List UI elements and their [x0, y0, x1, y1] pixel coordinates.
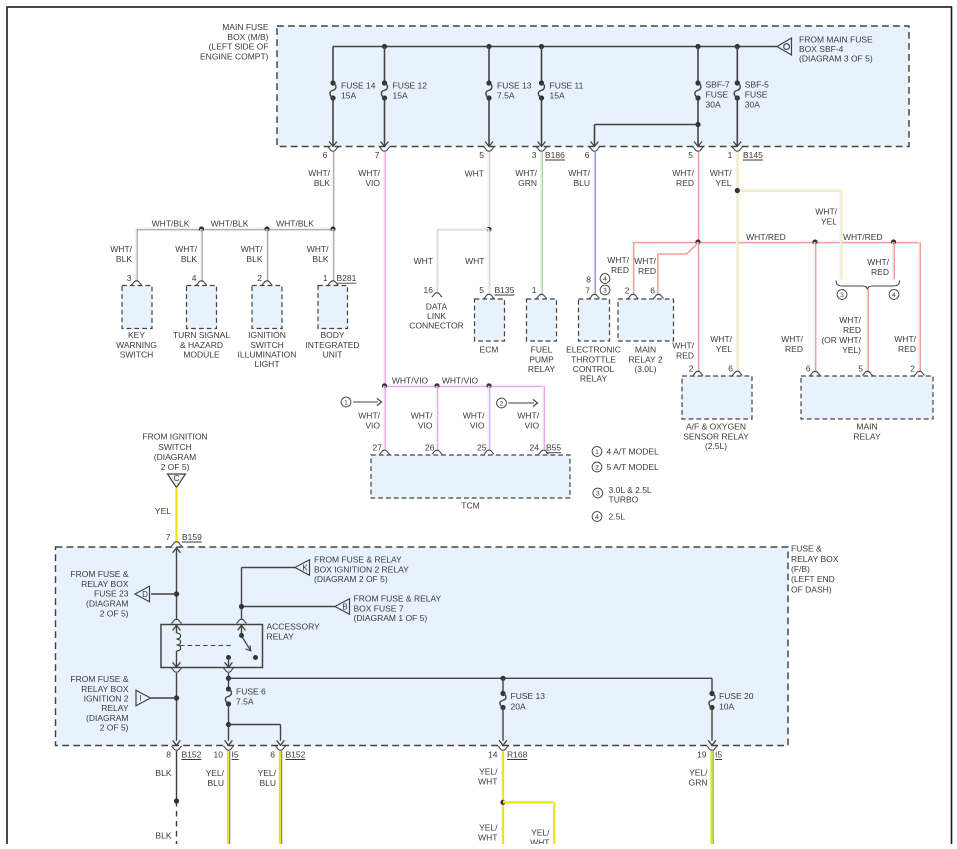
svg-text:SBF-5: SBF-5: [745, 80, 769, 90]
svg-text:B: B: [342, 602, 347, 611]
svg-text:5: 5: [858, 364, 863, 374]
svg-text:WHT/: WHT/: [307, 244, 329, 254]
node BLK: [174, 798, 179, 803]
box FUEL PUMP RELAY: [527, 299, 557, 341]
svg-text:I: I: [139, 694, 141, 703]
svg-text:WHT/: WHT/: [411, 411, 433, 421]
svg-text:19: 19: [697, 750, 707, 760]
svg-text:VIO: VIO: [365, 421, 380, 431]
svg-text:27: 27: [373, 443, 383, 453]
svg-text:(LEFT SIDE OF: (LEFT SIDE OF: [209, 42, 269, 52]
wire WHT/VIO horizontal: [385, 384, 544, 386]
svg-text:MAIN: MAIN: [856, 422, 877, 432]
svg-text:FUSE 12: FUSE 12: [393, 80, 428, 90]
svg-text:4 A/T MODEL: 4 A/T MODEL: [607, 447, 660, 457]
main fuse box M/B (dashed box): [277, 26, 909, 147]
box A/F & OXYGEN SENSOR RELAY (2.5L): [682, 376, 752, 419]
svg-text:WHT: WHT: [478, 833, 497, 843]
pin 7 (WHT/VIO): [379, 147, 389, 151]
svg-text:(DIAGRAM 1 OF 5): (DIAGRAM 1 OF 5): [354, 613, 428, 623]
svg-text:B152: B152: [286, 749, 306, 759]
svg-text:FUSE 23: FUSE 23: [94, 589, 129, 599]
node sbf5 bus: [735, 44, 740, 49]
wire sbf7 tap to pin6: [595, 124, 699, 126]
svg-text:B145: B145: [743, 150, 763, 160]
svg-text:(DIAGRAM 2 OF 5): (DIAGRAM 2 OF 5): [314, 574, 388, 584]
svg-text:ENGINE COMPT): ENGINE COMPT): [200, 52, 269, 62]
svg-text:BOX IGNITION 2 RELAY: BOX IGNITION 2 RELAY: [314, 564, 409, 574]
svg-text:(DIAGRAM: (DIAGRAM: [86, 713, 129, 723]
svg-text:MODULE: MODULE: [183, 350, 220, 360]
svg-text:2 OF 5): 2 OF 5): [100, 608, 129, 618]
wire YEL: [175, 488, 177, 542]
svg-text:FUSE &: FUSE &: [791, 544, 822, 554]
wire feed to fuse 13 / fuse 20: [229, 677, 713, 679]
svg-text:WHT/RED: WHT/RED: [746, 232, 786, 242]
svg-text:6: 6: [728, 364, 733, 374]
wire coil ground path: [176, 673, 178, 741]
pin 5 (WHT): [484, 147, 494, 151]
pin 1 B145: [732, 147, 742, 151]
node WHT/BLK j2: [264, 226, 269, 231]
wire YEL/BLU pin 10: [227, 751, 229, 845]
svg-text:2: 2: [910, 364, 915, 374]
svg-text:TURBO: TURBO: [609, 495, 639, 505]
svg-text:K: K: [302, 563, 308, 572]
node fuse12 bus: [382, 44, 387, 49]
svg-text:BLK: BLK: [155, 831, 171, 841]
wire WHT/RED to main relay pin 6: [813, 242, 815, 372]
svg-text:BLK: BLK: [312, 254, 328, 264]
svg-text:(2.5L): (2.5L): [705, 441, 727, 451]
svg-text:YEL/: YEL/: [206, 768, 225, 778]
svg-text:15A: 15A: [341, 90, 356, 100]
svg-text:YEL: YEL: [155, 506, 171, 516]
svg-text:BLK: BLK: [181, 254, 197, 264]
legend (4) 2.5L: [592, 512, 602, 522]
svg-text:RED: RED: [898, 344, 916, 354]
fuse FUSE 13 20A: [500, 691, 505, 696]
node WHT/RED j3: [891, 239, 896, 244]
svg-text:10: 10: [214, 750, 224, 760]
svg-text:YEL/: YEL/: [258, 768, 277, 778]
svg-text:YEL/: YEL/: [531, 828, 550, 838]
svg-text:5: 5: [479, 285, 484, 295]
svg-text:WHT/: WHT/: [634, 256, 656, 266]
svg-text:15A: 15A: [550, 90, 565, 100]
relay switch out cup: [223, 668, 233, 672]
svg-text:RED: RED: [611, 265, 629, 275]
svg-text:BLK: BLK: [314, 178, 330, 188]
svg-text:SBF-7: SBF-7: [706, 80, 730, 90]
svg-text:FUSE 20: FUSE 20: [719, 691, 754, 701]
wire WHT/YEL branch right: [737, 189, 841, 191]
pin 14 R168: [498, 746, 508, 750]
wire YEL/WHT branch: [503, 800, 554, 802]
svg-text:(DIAGRAM: (DIAGRAM: [154, 452, 197, 462]
fuse FUSE 20 10A: [709, 691, 714, 696]
svg-text:FROM FUSE & RELAY: FROM FUSE & RELAY: [354, 594, 442, 604]
svg-text:WHT: WHT: [465, 168, 484, 178]
svg-text:3: 3: [603, 287, 607, 294]
svg-text:4: 4: [595, 514, 599, 521]
svg-text:FUSE 14: FUSE 14: [341, 80, 376, 90]
svg-text:VIO: VIO: [365, 178, 380, 188]
wire WHT/VIO drop to TCM: [435, 386, 437, 451]
svg-text:WHT/RED: WHT/RED: [843, 232, 883, 242]
box IGNITION SWITCH ILLUMINATION LIGHT: [252, 286, 282, 329]
accessory relay box: [161, 625, 263, 668]
svg-text:8: 8: [586, 275, 591, 285]
wire WHT/BLK horizontal bus: [137, 227, 334, 229]
svg-text:RELAY: RELAY: [580, 374, 608, 384]
svg-text:WHT/: WHT/: [607, 255, 629, 265]
svg-text:2: 2: [595, 464, 599, 471]
svg-text:ELECTRONIC: ELECTRONIC: [566, 345, 621, 355]
pin 6 (WHT/BLK): [328, 147, 338, 151]
wire WHT/RED from pin 5 down: [696, 152, 698, 242]
svg-text:6: 6: [323, 150, 328, 160]
svg-text:5 A/T MODEL: 5 A/T MODEL: [607, 462, 660, 472]
wire BLK dashed continuation: [176, 801, 178, 845]
box TURN SIGNAL & HAZARD MODULE: [187, 286, 217, 329]
svg-text:8: 8: [166, 750, 171, 760]
box KEY WARNING SWITCH: [122, 286, 152, 329]
svg-text:SWITCH: SWITCH: [250, 340, 284, 350]
svg-text:YEL/: YEL/: [689, 768, 708, 778]
svg-text:2 OF 5): 2 OF 5): [161, 462, 190, 472]
svg-text:TURN SIGNAL: TURN SIGNAL: [173, 330, 230, 340]
svg-text:& HAZARD: & HAZARD: [180, 340, 223, 350]
svg-text:4: 4: [892, 292, 896, 299]
box BODY INTEGRATED UNIT: [318, 286, 348, 329]
svg-text:FUSE 11: FUSE 11: [550, 80, 584, 90]
svg-text:ILLUMINATION: ILLUMINATION: [238, 350, 297, 360]
wire WHT/BLK drop: [331, 229, 333, 282]
svg-text:BLU: BLU: [573, 178, 590, 188]
svg-text:GRN: GRN: [518, 178, 537, 188]
relay switch: [239, 633, 244, 638]
wire WHT/VIO drop to TCM: [487, 386, 489, 451]
svg-text:BLU: BLU: [259, 778, 276, 788]
svg-text:INTEGRATED: INTEGRATED: [305, 340, 359, 350]
brace merge (3)(4): [836, 281, 900, 290]
svg-text:(LEFT END: (LEFT END: [791, 574, 835, 584]
svg-text:3: 3: [532, 150, 537, 160]
variant arrow (2): [497, 398, 507, 408]
svg-text:C: C: [174, 474, 180, 483]
svg-text:WHT/: WHT/: [358, 411, 380, 421]
box ECM: [475, 299, 505, 341]
svg-text:BLK: BLK: [116, 254, 132, 264]
svg-text:WHT/: WHT/: [110, 244, 132, 254]
wire WHT/RED (OR WHT/YEL) from brace to main relay pin 5: [866, 289, 868, 372]
svg-text:I5: I5: [232, 749, 239, 759]
svg-text:IGNITION 2: IGNITION 2: [84, 694, 129, 704]
svg-text:WHT/BLK: WHT/BLK: [276, 219, 314, 229]
svg-text:LIGHT: LIGHT: [254, 359, 279, 369]
node fuse13 bus: [486, 44, 491, 49]
svg-text:FROM FUSE & RELAY: FROM FUSE & RELAY: [314, 555, 402, 565]
wire below fuse 6: [228, 704, 230, 741]
legend (1) 4 A/T MODEL: [592, 447, 602, 457]
svg-text:2: 2: [500, 400, 504, 407]
svg-text:I5: I5: [715, 749, 722, 759]
svg-text:RED: RED: [676, 178, 694, 188]
svg-text:RELAY: RELAY: [528, 364, 556, 374]
node fuse11 bus: [539, 44, 544, 49]
svg-text:WHT/: WHT/: [517, 411, 539, 421]
svg-text:YEL: YEL: [716, 344, 732, 354]
svg-text:1: 1: [344, 399, 348, 406]
svg-text:FUSE 6: FUSE 6: [236, 687, 266, 697]
svg-text:FUEL: FUEL: [531, 345, 553, 355]
svg-text:30A: 30A: [745, 100, 760, 110]
node D junction: [174, 591, 179, 596]
svg-text:25: 25: [477, 443, 487, 453]
node WHT/RED j2: [812, 239, 817, 244]
svg-text:16: 16: [424, 285, 434, 295]
node WHT split: [486, 227, 491, 232]
svg-text:YEL/: YEL/: [479, 823, 498, 833]
fuse FUSE 6 7.5A: [226, 686, 231, 691]
wire WHT/RED horizontal: [633, 240, 920, 242]
pin 19 I5: [707, 746, 717, 750]
box ELECTRONIC THROTTLE CONTROL RELAY: [579, 299, 610, 341]
svg-text:CONNECTOR: CONNECTOR: [409, 320, 464, 330]
relay coil out cup: [171, 668, 181, 672]
wire WHT/BLK drop: [200, 229, 202, 282]
svg-text:WHT: WHT: [465, 256, 484, 266]
svg-text:A/F & OXYGEN: A/F & OXYGEN: [686, 422, 746, 432]
legend (3) 3.0L & 2.5L TURBO: [593, 488, 603, 498]
wire WHT/RED diagonal to main relay 2 pin 6: [659, 243, 698, 295]
wire WHT/BLK drop: [135, 229, 137, 282]
svg-text:WHT/: WHT/: [672, 341, 694, 351]
svg-text:6: 6: [806, 364, 811, 374]
svg-text:7: 7: [585, 286, 590, 296]
svg-text:R168: R168: [507, 749, 528, 759]
svg-text:WHT/: WHT/: [672, 168, 694, 178]
svg-text:WHT: WHT: [530, 838, 549, 844]
relay switch output: [228, 658, 230, 668]
legend (2) 5 A/T MODEL: [592, 462, 602, 472]
svg-text:3.0L & 2.5L: 3.0L & 2.5L: [609, 485, 652, 495]
node WHT/BLK j1: [199, 226, 204, 231]
svg-text:7.5A: 7.5A: [236, 697, 254, 707]
svg-text:BLK: BLK: [155, 768, 171, 778]
svg-text:RED: RED: [843, 325, 861, 335]
svg-text:WHT/: WHT/: [241, 244, 263, 254]
wire WHT/GRN from pin 3: [540, 152, 542, 295]
svg-text:IGNITION: IGNITION: [248, 330, 286, 340]
pin 6 B152: [275, 746, 285, 750]
wire WHT to data link connector: [437, 228, 489, 230]
svg-text:10A: 10A: [719, 702, 734, 712]
svg-text:RELAY BOX: RELAY BOX: [81, 579, 129, 589]
node WHT/VIO j2: [434, 383, 439, 388]
svg-text:SWITCH: SWITCH: [158, 442, 192, 452]
svg-text:7.5A: 7.5A: [497, 90, 515, 100]
svg-text:15A: 15A: [393, 90, 408, 100]
svg-text:GRN: GRN: [689, 778, 708, 788]
wire YEL/WHT pin 14: [501, 751, 503, 845]
svg-text:VIO: VIO: [418, 421, 433, 431]
svg-text:CONTROL: CONTROL: [573, 364, 615, 374]
connector K from ignition 2 relay: [295, 560, 310, 576]
svg-text:THROTTLE: THROTTLE: [571, 354, 616, 364]
connector I from ignition 2 relay: [136, 690, 151, 706]
svg-text:SWITCH: SWITCH: [120, 350, 154, 360]
svg-text:RELAY: RELAY: [267, 632, 295, 642]
svg-text:1: 1: [595, 449, 599, 456]
svg-text:30A: 30A: [706, 100, 721, 110]
svg-text:2: 2: [257, 273, 262, 283]
svg-text:7: 7: [375, 150, 380, 160]
pin 3 B186: [536, 147, 546, 151]
svg-text:3: 3: [840, 292, 844, 299]
svg-text:2: 2: [689, 364, 694, 374]
svg-text:WHT/: WHT/: [175, 244, 197, 254]
svg-text:FROM FUSE &: FROM FUSE &: [70, 674, 128, 684]
fuse SBF-7 30A: [697, 47, 699, 84]
svg-text:WHT/BLK: WHT/BLK: [211, 219, 249, 229]
svg-text:FUSE 13: FUSE 13: [497, 80, 532, 90]
svg-text:VIO: VIO: [524, 421, 539, 431]
svg-text:MAIN FUSE: MAIN FUSE: [222, 22, 269, 32]
svg-text:BOX (M/B): BOX (M/B): [227, 32, 268, 42]
svg-text:2: 2: [625, 286, 630, 296]
wire BLK: [176, 751, 178, 801]
node I junction: [174, 695, 179, 700]
svg-text:WHT/VIO: WHT/VIO: [392, 375, 429, 385]
svg-text:7: 7: [166, 532, 171, 542]
node fuse6 split: [226, 722, 231, 727]
svg-text:WHT/: WHT/: [710, 168, 732, 178]
svg-text:WHT/: WHT/: [781, 334, 803, 344]
svg-text:ACCESSORY: ACCESSORY: [267, 622, 321, 632]
svg-text:1: 1: [532, 285, 537, 295]
wire WHT/VIO from pin 7: [383, 152, 385, 386]
svg-text:4: 4: [192, 273, 197, 283]
node fuse feed: [226, 676, 231, 681]
svg-text:WARNING: WARNING: [116, 340, 157, 350]
svg-text:FUSE 13: FUSE 13: [511, 691, 546, 701]
svg-text:YEL/: YEL/: [479, 767, 498, 777]
svg-text:B186: B186: [545, 150, 565, 160]
svg-text:FUSE: FUSE: [706, 90, 729, 100]
svg-text:24: 24: [530, 443, 540, 453]
svg-text:ECM: ECM: [480, 345, 499, 355]
svg-text:1: 1: [323, 273, 328, 283]
svg-text:BODY: BODY: [320, 330, 344, 340]
box TCM: [371, 455, 570, 498]
svg-text:20A: 20A: [511, 702, 526, 712]
svg-text:YEL: YEL: [821, 217, 837, 227]
wire WHT to ECM: [487, 229, 489, 293]
svg-text:3: 3: [596, 490, 600, 497]
svg-text:(OR WHT/: (OR WHT/: [821, 335, 861, 345]
node YEL/WHT split: [500, 800, 505, 805]
svg-text:14: 14: [488, 750, 498, 760]
relay switch entry: [236, 619, 246, 623]
svg-text:KEY: KEY: [128, 330, 145, 340]
svg-text:UNIT: UNIT: [323, 350, 343, 360]
variant arrow (1): [341, 397, 351, 407]
wire switch output to fuses: [228, 673, 230, 689]
svg-text:OF DASH): OF DASH): [791, 584, 832, 594]
svg-text:FROM FUSE &: FROM FUSE &: [70, 569, 128, 579]
wire YEL/BLU pin 6: [279, 751, 281, 845]
svg-text:WHT/: WHT/: [710, 334, 732, 344]
wire WHT/BLU from pin 6: [593, 152, 595, 295]
svg-text:WHT/: WHT/: [568, 168, 590, 178]
svg-text:B135: B135: [495, 285, 515, 295]
svg-text:1: 1: [728, 150, 733, 160]
svg-text:5: 5: [479, 150, 484, 160]
svg-text:SENSOR RELAY: SENSOR RELAY: [683, 431, 749, 441]
svg-text:BOX FUSE 7: BOX FUSE 7: [354, 603, 404, 613]
svg-text:3: 3: [127, 273, 132, 283]
wire WHT from pin 5: [487, 152, 489, 229]
svg-text:WHT/: WHT/: [894, 334, 916, 344]
svg-text:RED: RED: [785, 344, 803, 354]
node fuse13 feed: [500, 676, 505, 681]
svg-text:RED: RED: [676, 351, 694, 361]
svg-text:WHT/: WHT/: [515, 168, 537, 178]
pin 8 B152: [171, 746, 181, 750]
connector B from fuse 7: [335, 599, 350, 615]
svg-text:MAIN: MAIN: [635, 345, 656, 355]
svg-text:WHT/: WHT/: [867, 257, 889, 267]
svg-text:WHT/VIO: WHT/VIO: [442, 375, 479, 385]
svg-text:FROM IGNITION: FROM IGNITION: [142, 432, 207, 442]
svg-text:(DIAGRAM: (DIAGRAM: [86, 599, 129, 609]
svg-text:(DIAGRAM 3 OF 5): (DIAGRAM 3 OF 5): [799, 53, 873, 63]
wire ignition feed inside F/B: [173, 548, 181, 553]
svg-text:4: 4: [603, 276, 607, 283]
svg-text:WHT/: WHT/: [815, 207, 837, 217]
fuse FUSE 11 15A: [541, 47, 543, 84]
svg-text:6: 6: [270, 750, 275, 760]
svg-text:2.5L: 2.5L: [609, 512, 626, 522]
svg-text:PUMP: PUMP: [529, 354, 554, 364]
bus wire in fuse box: [333, 46, 777, 48]
svg-text:26: 26: [425, 443, 435, 453]
svg-text:(F/B): (F/B): [791, 564, 810, 574]
svg-text:YEL): YEL): [842, 345, 861, 355]
svg-text:RED: RED: [871, 267, 889, 277]
pin 6 (WHT/BLU): [589, 147, 599, 151]
svg-text:6: 6: [585, 150, 590, 160]
fuse & relay box F/B (dashed box): [56, 547, 789, 746]
pin 5 (WHT/RED): [693, 147, 703, 151]
svg-text:B159: B159: [182, 532, 202, 542]
svg-text:TCM: TCM: [461, 501, 479, 511]
fuse FUSE 13 7.5A: [488, 47, 490, 84]
node WHT/RED j1: [695, 239, 700, 244]
wire WHT/RED to brace (4): [892, 242, 894, 280]
relay coil entry: [171, 619, 181, 623]
svg-text:BLK: BLK: [246, 254, 262, 264]
svg-text:RELAY BOX: RELAY BOX: [791, 554, 839, 564]
svg-text:RED: RED: [638, 266, 656, 276]
svg-text:RELAY: RELAY: [101, 703, 129, 713]
wire WHT/RED right end to main relay pin 2: [918, 242, 920, 372]
relay mech link (dashed): [180, 645, 233, 647]
wire WHT/RED to main relay 2 pin 2: [631, 242, 633, 295]
svg-text:B152: B152: [182, 749, 202, 759]
